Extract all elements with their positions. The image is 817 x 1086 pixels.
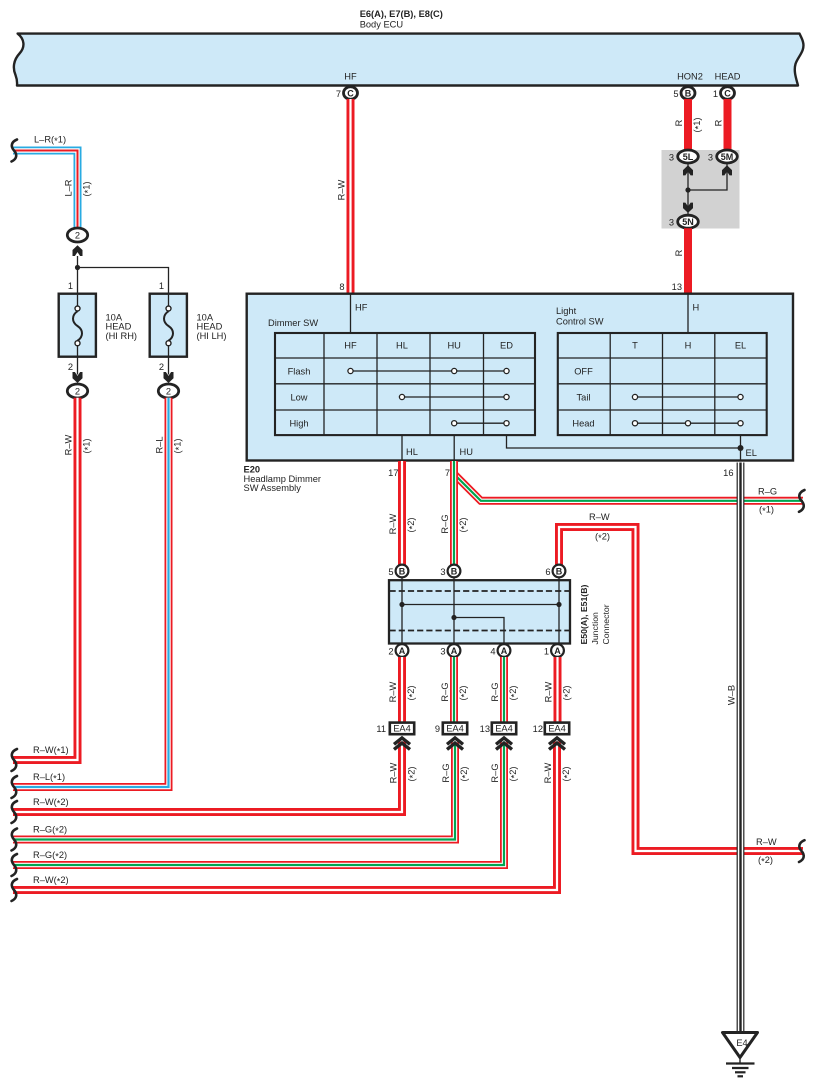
- pin 3 A: [448, 644, 461, 657]
- svg-text:HEAD: HEAD: [715, 72, 741, 82]
- pin 3 B: [448, 565, 461, 578]
- wire R-W(*2) EA4-11 to off-page left: [13, 742, 402, 813]
- node dot right: [556, 602, 561, 607]
- wire HU table to box bottom: [453, 435, 455, 461]
- connector E6/E7/E8 Body ECU band: [14, 34, 804, 86]
- svg-text:R–G: R–G: [758, 487, 777, 497]
- wire EL table to EL node: [740, 435, 742, 461]
- svg-text:(*2): (*2): [562, 685, 574, 700]
- svg-text:(*2): (*2): [406, 517, 418, 532]
- fuse 10A HEAD (HI LH): [150, 293, 187, 375]
- pin 1 HEAD connector circle C: [721, 87, 735, 100]
- wire R-W(*2) junction 6B up over to right and down to off-page right: [559, 527, 803, 851]
- arrow down into connector 2 (fuse 1): [73, 372, 83, 383]
- svg-text:R–W: R–W: [337, 179, 347, 200]
- wire node to 5N: [687, 190, 689, 214]
- svg-text:HL: HL: [406, 447, 418, 457]
- svg-text:HF: HF: [344, 341, 357, 351]
- wire R-G(*2) EA4-13 to off-page left: [13, 742, 504, 866]
- svg-text:Dimmer SW: Dimmer SW: [268, 318, 318, 328]
- relay block gray box: [662, 150, 740, 229]
- svg-text:(*2): (*2): [595, 532, 610, 544]
- wire H inside E20: [687, 293, 689, 333]
- connector 5M: [717, 150, 738, 163]
- tear mark R-G(*2) left 2: [12, 854, 18, 876]
- svg-text:1: 1: [68, 281, 73, 291]
- connector EA4 pin 12: [545, 723, 569, 735]
- svg-text:R–W(*2): R–W(*2): [33, 797, 69, 809]
- node branch dot: [75, 265, 80, 270]
- svg-text:W–B: W–B: [727, 685, 737, 705]
- wire 5L to node: [687, 163, 689, 190]
- connector circle 2 below fuse 1: [67, 384, 87, 398]
- svg-text:5: 5: [388, 567, 393, 577]
- internal wire 3B-3A: [453, 577, 455, 645]
- fuse 10A HEAD (HI RH): [59, 293, 96, 375]
- svg-text:R–G: R–G: [490, 763, 500, 782]
- wire R-G(*2) E20 pin7 to junction 3B: [450, 461, 458, 566]
- svg-text:1: 1: [544, 647, 549, 657]
- svg-text:A: A: [451, 646, 458, 656]
- svg-text:17: 17: [388, 468, 398, 478]
- wire to junction node: [77, 256, 79, 268]
- svg-text:T: T: [632, 341, 638, 351]
- svg-text:Head: Head: [572, 418, 594, 428]
- wire R-W(*2) EA4-12 to off-page left: [13, 742, 557, 891]
- svg-text:B: B: [451, 566, 458, 576]
- wire R-W(*2) 2A to EA4-11: [398, 657, 406, 722]
- svg-text:R–G: R–G: [440, 682, 450, 701]
- svg-text:(*1): (*1): [82, 181, 94, 196]
- internal bus wire: [402, 604, 559, 606]
- svg-text:7: 7: [445, 468, 450, 478]
- svg-text:E20: E20: [244, 465, 261, 475]
- svg-text:C: C: [724, 88, 731, 98]
- svg-text:SW Assembly: SW Assembly: [244, 483, 302, 493]
- svg-text:R–G: R–G: [490, 682, 500, 701]
- arrow up into 5L: [683, 165, 693, 175]
- wire R from HON2 pin 5 to 5L: [684, 99, 692, 151]
- svg-text:3: 3: [669, 218, 674, 228]
- svg-text:R–L: R–L: [155, 436, 165, 453]
- svg-text:L–R(*1): L–R(*1): [34, 135, 66, 147]
- svg-text:R–W: R–W: [388, 513, 398, 534]
- contacts Head row: [632, 421, 743, 426]
- arrow up into 5M: [722, 165, 732, 175]
- svg-text:ED: ED: [500, 341, 513, 351]
- svg-text:2: 2: [159, 362, 164, 372]
- svg-text:3: 3: [440, 567, 445, 577]
- svg-text:R–G(*2): R–G(*2): [33, 825, 67, 837]
- svg-text:(*2): (*2): [561, 766, 573, 781]
- svg-text:R–W: R–W: [388, 681, 398, 702]
- svg-text:HF: HF: [344, 72, 357, 82]
- svg-text:EA4: EA4: [495, 724, 513, 734]
- svg-text:B: B: [685, 88, 692, 98]
- svg-text:R–G: R–G: [441, 763, 451, 782]
- pin 7 HF connector circle C: [344, 87, 358, 100]
- svg-text:16: 16: [723, 468, 733, 478]
- connector EA4 pin 11: [390, 723, 414, 735]
- svg-text:R: R: [714, 119, 724, 126]
- svg-text:HU: HU: [447, 341, 460, 351]
- svg-text:E4: E4: [736, 1038, 747, 1048]
- pin 6 B: [553, 565, 566, 578]
- node dot left: [399, 602, 404, 607]
- pin 4 A: [498, 644, 511, 657]
- contacts Flash row: [348, 368, 509, 373]
- wire R-W(*1) from fuse1 connector to off-page left: [13, 398, 78, 760]
- svg-text:A: A: [399, 646, 406, 656]
- svg-text:R–W: R–W: [543, 762, 553, 783]
- svg-text:Flash: Flash: [288, 366, 311, 376]
- svg-text:(*2): (*2): [406, 685, 418, 700]
- svg-text:5M: 5M: [721, 152, 734, 162]
- tear mark R-W(*1) left: [12, 749, 18, 771]
- svg-text:(*2): (*2): [458, 517, 470, 532]
- pin 1 A: [551, 644, 564, 657]
- svg-text:E50(A), E51(B): E50(A), E51(B): [579, 585, 589, 645]
- svg-text:A: A: [501, 646, 508, 656]
- connector EA4 pin 13: [492, 723, 516, 735]
- svg-text:R–W: R–W: [589, 512, 610, 522]
- svg-text:EL: EL: [746, 448, 757, 458]
- svg-text:Body ECU: Body ECU: [360, 20, 403, 30]
- wire R-G(*2) 4A to EA4-13: [500, 657, 508, 722]
- chevrons EA4-11: [394, 738, 410, 744]
- dimmer SW table: [274, 332, 536, 435]
- dashed bus lines: [390, 590, 570, 592]
- svg-text:(HI LH): (HI LH): [197, 331, 227, 341]
- svg-text:(*1): (*1): [692, 117, 704, 132]
- svg-text:R–W: R–W: [544, 681, 554, 702]
- ground E4 triangle: [723, 1033, 758, 1058]
- svg-text:Tail: Tail: [577, 392, 591, 402]
- connector EA4 pin 9: [443, 723, 467, 735]
- chevrons EA4-13: [496, 738, 512, 744]
- wire R-W from HF pin 7 to E20 pin 8: [347, 99, 355, 293]
- arrow down into connector 2 (fuse 2): [164, 372, 174, 383]
- connector circle 2 below fuse 2: [158, 384, 178, 398]
- wire HL table to box bottom: [401, 435, 403, 461]
- svg-text:E6(A), E7(B), E8(C): E6(A), E7(B), E8(C): [360, 9, 443, 19]
- svg-text:H: H: [685, 341, 692, 351]
- svg-text:HU: HU: [460, 447, 473, 457]
- svg-text:7: 7: [336, 89, 341, 99]
- junction connector E50(A) E51(B) box: [389, 580, 570, 643]
- svg-text:OFF: OFF: [574, 366, 593, 376]
- svg-text:Light: Light: [556, 306, 577, 316]
- svg-text:R–W: R–W: [64, 434, 74, 455]
- svg-text:(*1): (*1): [173, 438, 185, 453]
- svg-text:8: 8: [339, 282, 344, 292]
- svg-text:H: H: [693, 303, 700, 313]
- node EL dot: [738, 445, 744, 451]
- svg-text:HF: HF: [355, 303, 368, 313]
- svg-text:High: High: [289, 418, 308, 428]
- chevrons EA4-9: [447, 738, 463, 744]
- svg-text:(HI RH): (HI RH): [106, 331, 138, 341]
- svg-text:(*2): (*2): [459, 766, 471, 781]
- node dot: [685, 187, 690, 192]
- svg-text:(*2): (*2): [458, 685, 470, 700]
- svg-text:5: 5: [673, 89, 678, 99]
- svg-text:4: 4: [490, 647, 495, 657]
- tear mark R-G(*2) left: [12, 829, 18, 851]
- svg-text:(*2): (*2): [508, 766, 520, 781]
- svg-text:13: 13: [672, 282, 682, 292]
- ground bars: [726, 1062, 755, 1064]
- svg-text:HON2: HON2: [677, 72, 703, 82]
- tear mark R-W right end: [799, 840, 805, 862]
- wire R-W(*2) E20 pin17 to junction 5B: [398, 461, 406, 566]
- connector circle 2 top-left: [67, 228, 87, 242]
- svg-text:5N: 5N: [682, 217, 694, 227]
- svg-text:R–W(*1): R–W(*1): [33, 745, 69, 757]
- wire R-G(*2) 3A to EA4-9: [450, 657, 458, 722]
- internal wire 6B-1A: [558, 577, 560, 645]
- svg-text:3: 3: [708, 153, 713, 163]
- svg-text:2: 2: [75, 387, 80, 397]
- tear mark L-R left end: [12, 140, 18, 162]
- arrow down into 5N: [683, 203, 693, 213]
- svg-text:Junction: Junction: [590, 612, 600, 645]
- pin 5 HON2 connector circle B: [681, 87, 695, 100]
- svg-text:6: 6: [545, 567, 550, 577]
- svg-text:Control SW: Control SW: [556, 317, 604, 327]
- svg-text:1: 1: [713, 89, 718, 99]
- svg-text:EA4: EA4: [548, 724, 566, 734]
- svg-text:R–G(*2): R–G(*2): [33, 850, 67, 862]
- svg-text:C: C: [347, 88, 354, 98]
- node dot 3A branch: [451, 615, 456, 620]
- svg-text:5L: 5L: [683, 152, 694, 162]
- svg-text:11: 11: [376, 724, 386, 734]
- svg-text:(*2): (*2): [758, 855, 773, 867]
- svg-text:2: 2: [75, 231, 80, 241]
- contacts Tail row: [632, 394, 743, 399]
- wire R from HEAD pin 1 to 5M: [724, 99, 732, 151]
- svg-text:2: 2: [166, 387, 171, 397]
- contacts High row: [452, 421, 510, 426]
- chevrons EA4-12: [549, 738, 565, 744]
- wire HF inside E20: [350, 293, 352, 333]
- svg-text:Connector: Connector: [601, 604, 611, 644]
- wire W-B from E20 pin16 to ground E4: [737, 463, 745, 1032]
- tear mark R-G right end: [799, 490, 805, 512]
- arrow up into connector 2: [73, 245, 83, 256]
- pin 2 A: [396, 644, 409, 657]
- wire ED to EL node: [507, 435, 741, 448]
- svg-text:R–W: R–W: [389, 762, 399, 783]
- wire R-G(*1) E20 pin7 branch to off-page right: [454, 461, 803, 501]
- svg-text:B: B: [556, 566, 563, 576]
- svg-text:13: 13: [480, 724, 490, 734]
- svg-text:R–W(*2): R–W(*2): [33, 875, 69, 887]
- tear mark R-W(*2) left 3: [12, 879, 18, 901]
- svg-text:3: 3: [669, 153, 674, 163]
- svg-text:B: B: [399, 566, 406, 576]
- svg-text:12: 12: [533, 724, 543, 734]
- svg-text:L–R: L–R: [64, 179, 74, 196]
- wire R-L(*1) from fuse2 connector to off-page left: [13, 398, 169, 787]
- connector 5N: [678, 215, 699, 228]
- svg-text:R: R: [674, 249, 684, 256]
- svg-text:(*1): (*1): [759, 505, 774, 517]
- tear mark R-L(*1) left: [12, 776, 18, 798]
- svg-text:(*1): (*1): [82, 438, 94, 453]
- wire 5M to node: [688, 163, 727, 190]
- svg-text:R: R: [674, 119, 684, 126]
- svg-text:1: 1: [159, 281, 164, 291]
- svg-text:(*2): (*2): [407, 766, 419, 781]
- contacts Low row: [399, 394, 509, 399]
- light control SW table: [557, 332, 767, 435]
- svg-text:A: A: [554, 646, 561, 656]
- connector 5L: [678, 150, 699, 163]
- switch E20 Headlamp Dimmer SW Assembly box: [247, 294, 793, 461]
- wire to fuse 1: [77, 268, 79, 294]
- svg-text:(*2): (*2): [508, 685, 520, 700]
- svg-text:R–W: R–W: [756, 837, 777, 847]
- svg-text:2: 2: [68, 362, 73, 372]
- svg-text:HL: HL: [396, 341, 408, 351]
- internal wire 5B-2A: [401, 577, 403, 645]
- svg-text:EL: EL: [735, 341, 746, 351]
- pin 5 B: [396, 565, 409, 578]
- svg-text:9: 9: [435, 724, 440, 734]
- svg-text:R–L(*1): R–L(*1): [33, 772, 65, 784]
- wire R from 5N to E20 pin 13: [684, 228, 692, 293]
- wire L-R from off-page to connector 2: [13, 151, 78, 229]
- tear mark R-W(*2) left: [12, 801, 18, 823]
- svg-text:EA4: EA4: [393, 724, 411, 734]
- svg-text:R–G: R–G: [440, 514, 450, 533]
- svg-text:EA4: EA4: [446, 724, 464, 734]
- svg-text:2: 2: [388, 647, 393, 657]
- internal branch to 4A: [454, 618, 504, 646]
- svg-text:3: 3: [440, 647, 445, 657]
- ground stem: [739, 1058, 741, 1064]
- svg-text:Low: Low: [290, 392, 307, 402]
- wire R-G(*2) EA4-9 to off-page left: [13, 742, 455, 840]
- wire branch to fuse 2: [78, 268, 169, 294]
- wire R-W(*2) 1A to EA4-12: [554, 657, 562, 722]
